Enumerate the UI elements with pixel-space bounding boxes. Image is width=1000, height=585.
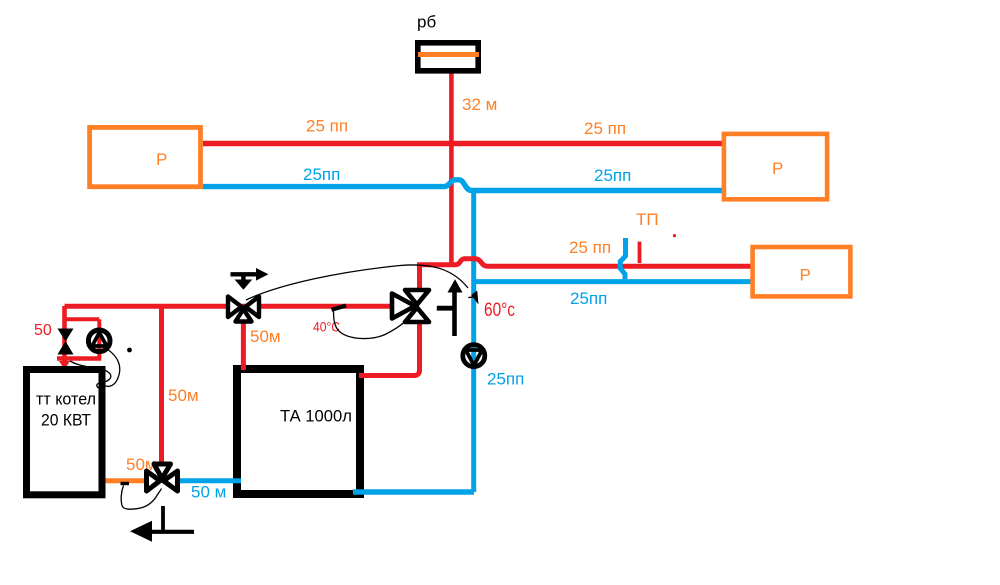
- sensor squiggle at valve V3: [121, 486, 161, 510]
- pump P1 at boiler: [88, 330, 110, 352]
- svg-text:25 пп: 25 пп: [584, 119, 626, 138]
- radiator R3: [753, 247, 851, 296]
- TP return stub (red): [638, 242, 642, 263]
- boiler loop: pump leg (red): [97, 319, 101, 358]
- svg-text:60°с: 60°с: [484, 300, 515, 321]
- svg-text:Р: Р: [156, 150, 167, 169]
- sensor squiggle at boiler: [70, 361, 111, 390]
- wire: red stub over TA right edge: [359, 373, 366, 378]
- svg-text:25пп: 25пп: [303, 165, 340, 184]
- svg-text:ТП: ТП: [636, 210, 659, 229]
- return main 1 with hop over riser (blue): [203, 180, 723, 191]
- svg-text:50 м: 50 м: [191, 483, 226, 502]
- radiator R1: [90, 127, 201, 186]
- wire: valve2 down leg to TA right (red): [361, 318, 420, 376]
- svg-text:Р: Р: [800, 266, 811, 285]
- svg-text:рб: рб: [417, 13, 436, 32]
- svg-text:32 м: 32 м: [462, 95, 497, 114]
- svg-text:25пп: 25пп: [487, 370, 524, 389]
- return main 2 (blue): [472, 279, 752, 284]
- node: small red dot: [673, 234, 676, 237]
- svg-text:25 пп: 25 пп: [306, 117, 348, 136]
- svg-text:20 КВТ: 20 КВТ: [41, 411, 91, 430]
- wire: red stub over TA top edge: [241, 364, 246, 370]
- TP supply stub with zigzag (blue): [620, 238, 625, 281]
- three-way valve V2: [392, 290, 429, 322]
- svg-text:Р: Р: [772, 159, 783, 178]
- wire: riser from expansion tank (red): [449, 72, 454, 265]
- wire: blue stub over TA left edge: [232, 478, 241, 483]
- sensor capillary from 40C tick to valve V2: [334, 311, 405, 339]
- boiler loop: bypass top (red): [65, 317, 100, 321]
- boiler loop: bypass bottom (red): [57, 356, 101, 360]
- expansion tank rb: [418, 43, 479, 71]
- sensor tick on boiler outlet: [121, 482, 130, 485]
- boiler tt kotel 20kVt: [27, 370, 103, 495]
- sensor squiggle from pump P1: [104, 349, 120, 386]
- svg-text:25 пп: 25 пп: [569, 238, 611, 257]
- actuator arrow above V1: [231, 268, 269, 290]
- svg-text:50м: 50м: [168, 386, 199, 405]
- three-way valve V1: [228, 297, 259, 322]
- return stub valve3 to TA (blue): [178, 478, 237, 483]
- supply main 1 to radiators (red): [203, 141, 723, 146]
- three-way valve V3 at boiler return: [147, 464, 178, 491]
- flow direction symbol near V2: [437, 279, 463, 336]
- wire: valve2 riser up (red): [417, 263, 422, 293]
- node: black dot: [127, 348, 132, 353]
- return bottom run to TA (blue): [353, 489, 474, 494]
- wire: central riser 50m (red): [159, 306, 164, 463]
- supply main 2 with wiggle (red): [418, 259, 752, 267]
- svg-text:50: 50: [34, 322, 52, 339]
- boiler loop: left riser (red): [62, 306, 67, 362]
- pump P2 on return riser: [463, 345, 485, 367]
- sensor capillary from valve V1 to return riser: [246, 265, 468, 300]
- supply pipe: boiler top header (red): [65, 304, 393, 309]
- return riser main (blue): [471, 189, 476, 492]
- arrowhead of capillary on return riser: [471, 291, 478, 305]
- sensor tick on supply at 40C: [332, 306, 347, 310]
- svg-text:тт котел: тт котел: [36, 390, 96, 409]
- svg-text:50м: 50м: [250, 327, 281, 346]
- wire: valve1 riser to TA top (red): [241, 320, 246, 368]
- drain arrow symbol bottom: [130, 506, 194, 542]
- radiator R2: [724, 134, 827, 199]
- check valve at boiler (filled bowtie): [58, 329, 74, 355]
- svg-text:25пп: 25пп: [570, 289, 607, 308]
- boiler outlet stub (orange): [104, 478, 146, 483]
- thermal accumulator TA 1000l: [237, 369, 360, 494]
- boiler loop: flow arrowhead into boiler (red): [59, 361, 70, 370]
- svg-text:ТА 1000л: ТА 1000л: [280, 407, 352, 426]
- svg-text:25пп: 25пп: [594, 166, 631, 185]
